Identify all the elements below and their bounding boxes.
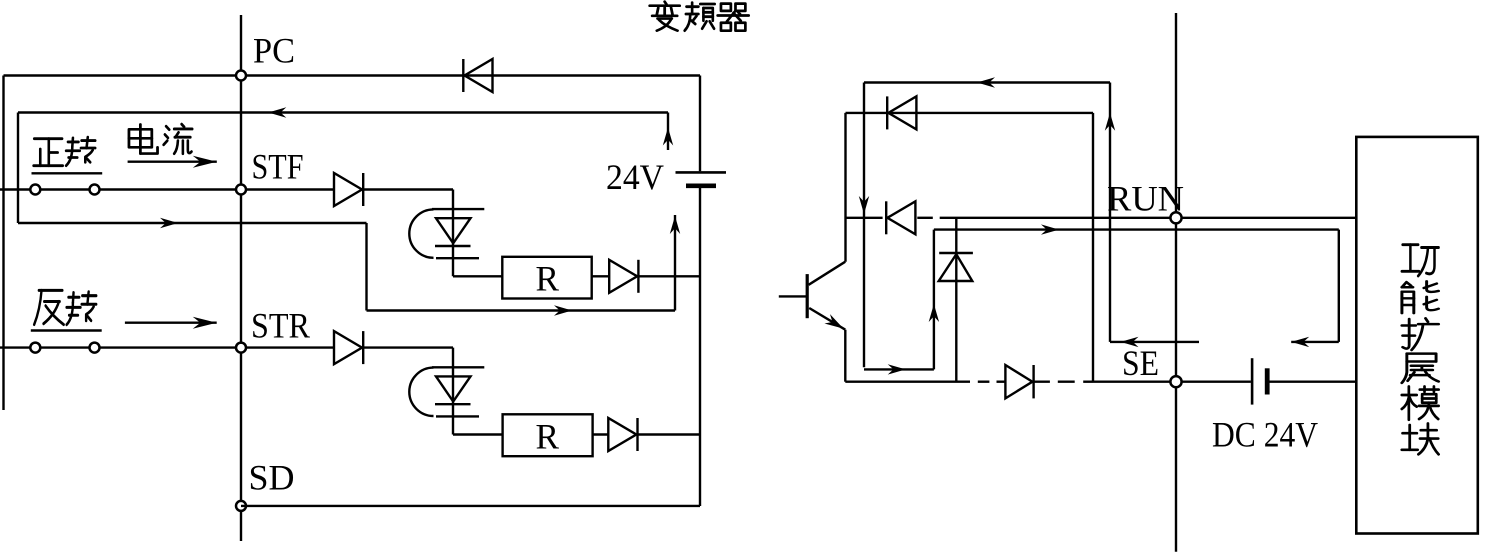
diode D8 (pointing up) [939,252,973,254]
label 电流 char 电 [129,124,158,153]
label module char 能 [1402,281,1439,313]
label module char 功 [1402,245,1439,276]
node PC terminal [236,71,246,81]
wire: 反转 arrow shaft [125,322,217,324]
wire: R2 to diode D5 [593,433,609,435]
svg-text:R: R [536,417,560,457]
wire: optocoupler U1 input vertical [452,190,454,277]
node STR terminal [236,343,246,353]
arrow: loopB upward [929,304,939,322]
block: function expansion module box [1356,137,1478,534]
wire: SE line dash a [978,381,990,383]
diode D4 on STR line (pointing right) [334,331,362,364]
wire: loop1 bottom segment [367,309,676,311]
wire: U2 to resistor R2 [453,433,503,435]
underline for 反转 [31,329,102,331]
wire: loopB right vertical [1338,230,1340,342]
diode D6 (pointing left) [888,96,916,129]
label 反转 char 转 [67,292,97,325]
wire: loopB left vertical [933,230,935,370]
diode D5 (pointing right) [608,418,636,451]
label 反转 char 反 [34,290,63,324]
wire: PC line [4,74,701,76]
wire: R1 to diode D3 [592,275,610,277]
switch K1 contact circle a [30,185,40,195]
wire: U1 to resistor R1 [453,275,502,277]
arrow: loop1 top leftward [268,107,286,117]
arrow: loop1 return upward [670,216,680,234]
optocoupler U1 LED [432,208,484,210]
wire: emitter down vertical [844,330,846,382]
transistor Q1 emitter [809,308,845,330]
label 变频器 title char 器 [718,4,749,31]
diode D3 (pointing right) [609,260,637,293]
wire: STR diode to optocoupler [363,346,453,348]
battery B1 24V positive plate [676,171,727,174]
wire: D8 branch vertical [955,218,957,382]
arrow: loopB bottom leftward [1291,337,1309,347]
label 变频器 title char 变 [650,2,680,31]
wire: SE line to battery [1093,381,1251,383]
wire: left rail [2,76,4,411]
wire: diode row line [846,112,1094,114]
arrow: loopA top leftward [977,77,995,87]
battery B2 DC24V negative plate [1265,368,1270,394]
wire: loop1 mid vertical [365,223,367,311]
wire: loopA left vertical [863,83,865,368]
arrow: emitter direction [824,314,846,333]
wire: loopB bottom segment [864,368,934,370]
label module char 扩 [1402,318,1439,350]
wire: right edge lower [699,188,701,507]
wire: STR switch lead from rail [0,346,30,348]
wire: right inner vertical to SE [1092,113,1094,382]
transistor Q1 collector [809,262,846,285]
battery B1 24V negative plate [686,184,716,189]
arrow: 反转 rightward [193,317,217,329]
arrow: loopB bottom rightward [888,364,906,374]
wire: collector vertical [844,113,846,262]
svg-text:SE: SE [1122,343,1159,383]
wire: loopB bottom right segment [1291,341,1339,343]
wire: SD line [241,505,700,507]
wire: D3 to right edge [638,275,700,277]
wire: loopA right vertical [1109,83,1111,342]
svg-text:STF: STF [252,147,304,187]
arrow: loopB top rightward [1041,224,1059,234]
svg-text:STR: STR [251,306,310,346]
wire: right edge upper [699,76,701,172]
wire: SE line dash b [997,381,1006,383]
resistor R1 box [502,257,591,299]
svg-text:DC 24V: DC 24V [1212,415,1318,455]
diode D9 (pointing right) [1005,365,1032,398]
node RUN terminal [1170,212,1181,223]
transistor Q1 base lead [779,295,807,297]
diode D2 on STF line (pointing right) [334,173,362,206]
node SE terminal [1170,376,1181,387]
wire: loop1 return vertical [674,215,676,311]
wire: STF line to diode [100,188,335,190]
wire: SE line dash e [1083,381,1093,383]
battery B2 DC24V positive plate [1251,358,1254,404]
resistor R2 box [503,414,593,456]
node SD terminal [236,501,246,511]
wire: loop1 stub down to 24V [667,113,669,151]
wire: inverter terminal bus (left) [240,15,242,541]
svg-text:24V: 24V [606,157,664,197]
wire: extension module bus (right) [1175,13,1177,552]
switch K1 contact circle b [90,185,100,195]
wire: RUN line after diode [917,217,933,219]
wire: battery to module box [1268,381,1356,383]
wire: SE line dash d [1058,381,1075,383]
wire: loopA bottom segment [1110,341,1199,343]
arrow: loopA bottom leftward [1121,337,1139,347]
wire: STR between contacts [41,346,89,348]
underline for 正转 [32,172,103,174]
wire: RUN line left part [846,217,883,219]
arrow: loop1 stub upward [663,128,673,146]
arrow: loopA right upward [1105,113,1115,131]
wire: RUN line main part [940,217,1357,219]
svg-text:R: R [536,259,560,299]
wire: STR line to diode [100,346,335,348]
wire: STF diode to optocoupler [363,188,453,190]
wire: optocoupler U2 input vertical [452,348,454,435]
svg-text:SD: SD [249,458,295,498]
optocoupler U2 LED [432,366,484,368]
wire: 电流 arrow shaft [128,160,217,162]
wire: STF switch lead from rail [0,188,30,190]
transistor Q1 base bar [806,274,809,318]
wire: loop1 left edge [17,113,19,224]
label module char 块 [1402,423,1439,454]
arrow: loop1 bottom rightward [554,305,572,315]
switch K2 contact circle b [90,343,100,353]
wire: SE line dash c [1034,381,1050,383]
node STF terminal [236,185,246,195]
arrow: loopA left downward [859,196,869,214]
label module char 模 [1402,386,1439,419]
arrow: 电流 rightward [193,156,217,168]
wire: loopB top segment [934,228,1339,230]
switch K2 contact circle a [30,343,40,353]
label 电流 char 流 [164,124,193,153]
label module char 展 [1402,354,1439,383]
label 正转 char 正 [34,139,63,166]
wire: D5 to right edge [638,433,701,435]
label 变频器 title char 频 [685,3,715,31]
label 正转 char 转 [66,137,95,165]
wire: loopA top segment [864,81,1110,83]
arrow: loop1 lower rightward [160,218,178,228]
diode D7 (pointing left) [887,201,915,234]
svg-text:RUN: RUN [1107,179,1184,219]
wire: loop1 lower segment [18,222,367,224]
wire: SE line solid left [845,381,970,383]
wire: loop1 top segment [18,111,668,113]
svg-text:PC: PC [253,31,295,71]
diode D1 on PC line (pointing left) [465,59,493,92]
wire: STF between contacts [41,188,89,190]
